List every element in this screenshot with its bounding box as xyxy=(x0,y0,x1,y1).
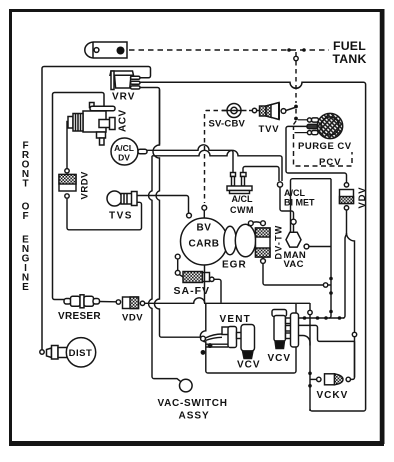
wire line B horizontal to bimet (hops at dashed and CWM drop) xyxy=(152,150,282,181)
wire EGR jumper to DV-TW xyxy=(248,222,261,226)
distributor DIST xyxy=(40,338,96,367)
valve VRDV xyxy=(59,169,76,199)
node A/CL BIMET junction circle xyxy=(277,182,282,187)
wire dashed vapor drop to purge area xyxy=(294,52,299,131)
wire VRESER to VDV-mid xyxy=(100,301,117,303)
junction dot TVV tee xyxy=(294,105,298,109)
wire parallel feed V0 down to man vac xyxy=(291,179,332,232)
canister purge valve PURGE CV xyxy=(295,113,343,138)
svg-text:VRV: VRV xyxy=(112,92,135,103)
vent control valve VCV (left) xyxy=(201,325,255,359)
svg-text:E: E xyxy=(22,282,29,293)
junction dots on V1 xyxy=(329,277,333,281)
svg-text:VDV: VDV xyxy=(122,313,143,324)
junction dots on fuel dashed line xyxy=(287,48,291,52)
wire dashed fuel tank line xyxy=(129,49,329,51)
EGR valve ellipses xyxy=(224,226,236,255)
svg-text:DV-TW: DV-TW xyxy=(274,225,284,260)
wire VCKV right up to branch xyxy=(351,341,355,379)
air cleaner cold weather modulator A/CL CWM xyxy=(227,173,252,194)
connector circle on vent down leg xyxy=(308,310,312,314)
wire TVS upper output to carb BV port xyxy=(137,196,189,213)
vent assembly box VENT xyxy=(200,303,310,411)
svg-text:VCV: VCV xyxy=(237,360,261,371)
svg-text:FUEL: FUEL xyxy=(333,39,366,53)
svg-text:VDV: VDV xyxy=(357,187,368,209)
air cleaner delay valve A/CL DV xyxy=(111,138,147,165)
svg-text:A/CL: A/CL xyxy=(284,188,305,198)
svg-text:DIST: DIST xyxy=(69,348,93,359)
wire VRV mid nipple long line to right edge xyxy=(140,82,366,409)
svg-text:T: T xyxy=(22,179,28,190)
delay valve DV-TW xyxy=(256,228,271,257)
solenoid valve SV-CBV xyxy=(222,104,257,118)
svg-text:SV-CBV: SV-CBV xyxy=(209,119,246,130)
junction dot purge tee xyxy=(294,117,298,121)
svg-text:TVV: TVV xyxy=(259,124,280,135)
wire second left line to VRESER xyxy=(53,93,105,298)
wire VCKV left tee xyxy=(310,378,317,380)
svg-text:PURGE CV: PURGE CV xyxy=(298,141,352,152)
svg-text:TANK: TANK xyxy=(333,52,367,66)
wire VCV right top port line xyxy=(299,317,345,319)
thermal vacuum switch TVS xyxy=(107,191,137,206)
vent control valve VCV (right) xyxy=(272,310,299,349)
wire purge middle nipple to right VDV xyxy=(286,126,347,182)
svg-text:BI MET: BI MET xyxy=(284,198,315,208)
svg-text:VAC-SWITCH: VAC-SWITCH xyxy=(158,398,228,409)
dashed SV-CBV branch line xyxy=(205,111,227,204)
carburetor CARB BV xyxy=(175,213,227,265)
vacuum reservoir VRESER xyxy=(64,295,100,308)
svg-text:CWM: CWM xyxy=(230,205,254,215)
svg-text:BV: BV xyxy=(197,223,212,234)
wire SA-FV to vent manifold xyxy=(214,279,221,303)
wire bottom loop V3 to VCKV leg xyxy=(310,409,366,411)
wire A/CL DV line to CWM (line A, hop over dashed) xyxy=(147,145,233,172)
svg-text:CARB: CARB xyxy=(189,239,220,250)
wire bimet down to man vac xyxy=(280,187,294,219)
wire ACV left to VRDV xyxy=(67,122,68,169)
wire CWM right post to bimet junction xyxy=(243,167,279,182)
svg-text:VRDV: VRDV xyxy=(80,171,91,200)
wire DV-TW bottom to V1 xyxy=(262,257,264,259)
wire TVV to vapor line xyxy=(286,108,295,111)
svg-text:ACV: ACV xyxy=(118,109,129,132)
manifold vacuum fitting MAN VAC xyxy=(286,232,301,247)
wire VRV lower nipple down (line B) xyxy=(140,88,160,145)
wire carb bottom to vent box xyxy=(204,265,206,303)
wire dashed into carb BV port xyxy=(202,205,207,210)
wire carb to SA-FV xyxy=(177,259,179,271)
svg-text:DV: DV xyxy=(118,153,130,163)
svg-text:VRESER: VRESER xyxy=(58,311,101,322)
wire long horizontal VDV-mid to vent box xyxy=(145,298,310,304)
wire vertical A from line-B corner down to vac-switch xyxy=(149,156,182,382)
svg-text:VCKV: VCKV xyxy=(317,390,349,401)
svg-text:A/CL: A/CL xyxy=(232,194,253,204)
fuel tank sender unit xyxy=(85,42,127,58)
svg-text:VENT: VENT xyxy=(220,314,251,325)
node FRONT OF ENGINE label xyxy=(22,141,30,294)
svg-text:VCV: VCV xyxy=(268,353,292,364)
wire VDV down with fork xyxy=(343,210,347,318)
wire man vac to V1 xyxy=(309,246,331,248)
svg-text:F: F xyxy=(22,211,28,222)
dashed PCV enclosure xyxy=(294,134,353,166)
valve VRV xyxy=(110,71,140,90)
junction dots on vent port line xyxy=(303,316,307,320)
delay valve VDV (right) xyxy=(340,183,354,210)
vac switch assembly xyxy=(180,379,193,392)
svg-text:ASSY: ASSY xyxy=(179,411,210,422)
wire TVS lower output loop to VRDV xyxy=(67,199,142,230)
wire VCV right mid port to VDV branch xyxy=(299,325,355,341)
spark advance fuel valve SA-FV xyxy=(183,272,210,283)
svg-text:EGR: EGR xyxy=(222,260,247,271)
delay valve VDV (middle) xyxy=(116,300,120,304)
wire VCV right lower port curve xyxy=(299,336,311,346)
svg-text:A/CL: A/CL xyxy=(114,143,134,153)
wire vertical B from VRV down to VCV vent xyxy=(153,90,201,338)
valve ACV xyxy=(68,103,115,146)
svg-text:TVS: TVS xyxy=(109,211,133,222)
svg-text:VAC: VAC xyxy=(284,259,304,270)
vacuum check valve VCKV xyxy=(317,374,351,385)
wire V1 vertical xyxy=(329,179,331,318)
thermal vent valve TVV xyxy=(260,103,286,120)
wire top-left main manifold line xyxy=(42,67,151,353)
